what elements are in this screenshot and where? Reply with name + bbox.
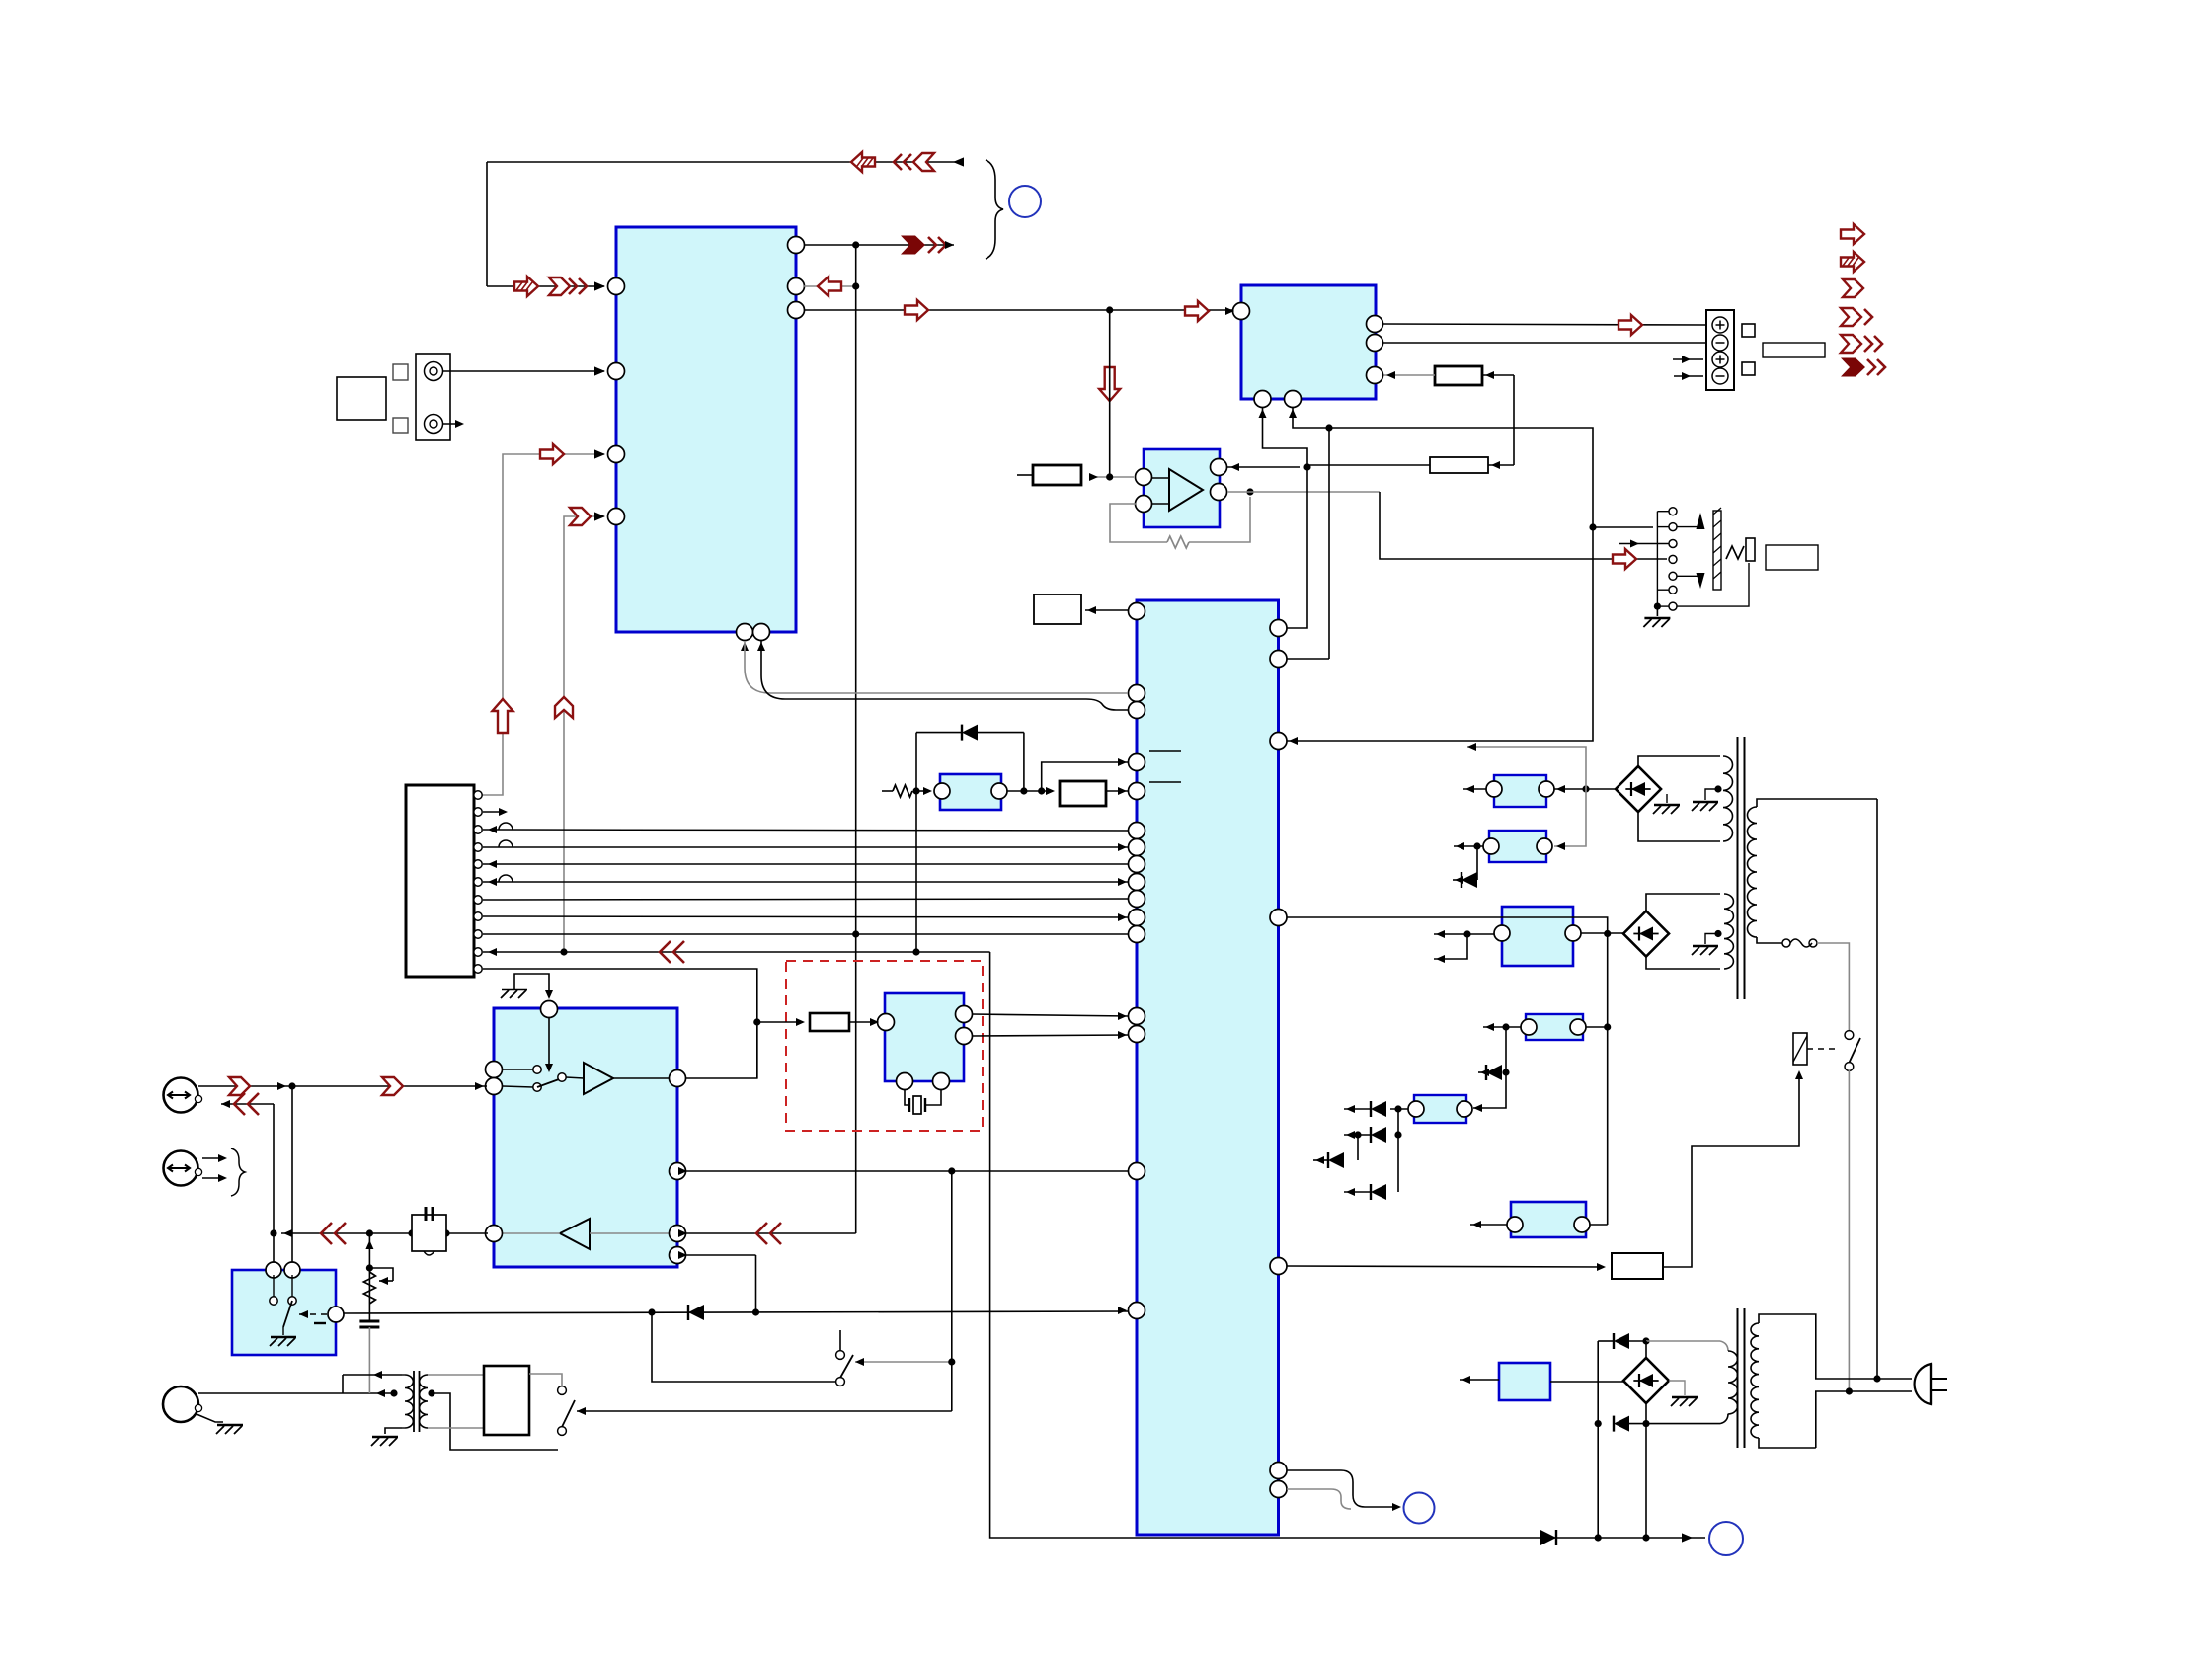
- resistor R501: [1033, 465, 1081, 485]
- filled chevron arrow with chevrons right: [901, 236, 925, 255]
- U601 mute feed 2: [1287, 408, 1593, 741]
- wire U301 to U401 row2: [972, 1035, 1129, 1036]
- block C pins: [1494, 925, 1510, 941]
- jack tip: [1746, 538, 1755, 561]
- block P to BR3: [1550, 1381, 1623, 1383]
- pot branch from mute net: [368, 1233, 370, 1322]
- wire into U201 pin 1271: [685, 1254, 756, 1256]
- resistor R401: [1034, 594, 1081, 624]
- relay K2 coil: [1793, 1033, 1807, 1065]
- U501 feedback loop: [1110, 504, 1167, 542]
- chevron arrow into U101 pin4: [570, 508, 591, 525]
- block E wires: [1586, 1026, 1608, 1028]
- block B pins: [1483, 838, 1499, 854]
- switch B: [836, 1351, 845, 1360]
- U202 switch: [270, 1297, 277, 1305]
- wire S1 down to plug: [1848, 1070, 1850, 1391]
- bus row 911 to U401: [483, 899, 1129, 900]
- outline arrow speaker: [1619, 315, 1642, 335]
- U202 internal ground: [271, 1336, 296, 1339]
- wire U301 to U401 row1: [972, 1014, 1129, 1016]
- transformer T1 winding A: [1723, 756, 1733, 841]
- BR2 to winding top: [1646, 894, 1720, 911]
- wire R601 to U601: [1383, 374, 1435, 376]
- minus label mark: [314, 1322, 326, 1324]
- ground G2: [1705, 789, 1718, 800]
- vertical rail to power indicator: [990, 952, 1705, 1538]
- BR1 to winding bottom: [1638, 812, 1720, 841]
- block A pins: [1486, 781, 1502, 797]
- vertical net x963 to U401: [951, 1171, 953, 1411]
- relay driver box: [1612, 1253, 1663, 1279]
- wire R501 to U501: [1089, 476, 1134, 478]
- ground near connector: [502, 989, 527, 991]
- outline arrow to jack: [1613, 549, 1636, 569]
- resistor R301: [810, 1013, 849, 1031]
- U301 pins: [878, 1014, 895, 1031]
- lead to T2 bottom: [1646, 1423, 1720, 1425]
- T1 winding B: [1724, 894, 1733, 969]
- arrow into U302: [923, 787, 932, 795]
- wire R301 to U301: [849, 1021, 877, 1023]
- fuse F1: [1782, 939, 1790, 947]
- branch to switch B: [652, 1312, 835, 1382]
- wire U302 out to R302: [1007, 790, 1053, 792]
- U101 pins: [608, 278, 625, 295]
- hatched arrow into U101 pin 1: [514, 277, 538, 296]
- wire U401 to R401: [1085, 609, 1129, 611]
- legend arrow 4: [1841, 308, 1861, 326]
- speaker stub arrows: [1673, 358, 1703, 360]
- jack left bracket: [1657, 511, 1669, 513]
- arrow on tap wire: [376, 1389, 385, 1397]
- legend arrow 2 hatched: [1841, 252, 1864, 272]
- bus row 964 with chevron: [483, 951, 990, 953]
- block P stub: [1460, 1379, 1499, 1381]
- monitor switch box U202: [232, 1270, 336, 1355]
- block B stub: [1454, 845, 1483, 847]
- regulator block G: [1414, 1095, 1466, 1123]
- diode D605: [1371, 1184, 1386, 1200]
- block A stub: [1463, 788, 1486, 790]
- jack stub arrow: [1619, 543, 1669, 545]
- U601 pins: [1233, 303, 1250, 320]
- bus row 928 to U401: [483, 916, 1129, 917]
- jack J2 line: [164, 1151, 198, 1186]
- ceramic filter box: [412, 1215, 446, 1251]
- resistor R601: [1435, 366, 1482, 385]
- wire U101 to U401 ch B: [761, 641, 1128, 710]
- speaker wire minus: [1383, 342, 1706, 344]
- resistor R502: [1430, 457, 1488, 473]
- transformer T3 left coil: [405, 1375, 413, 1428]
- timer indicator circle: [1404, 1493, 1435, 1524]
- bus row 946 to U401: [483, 933, 1129, 935]
- block C stubs: [1434, 933, 1494, 935]
- wire top feedback net: [487, 161, 956, 163]
- wire ground to U201 top pin: [514, 974, 549, 997]
- wire bus vertical x866: [855, 245, 857, 1233]
- T3 right leads: [428, 1374, 484, 1376]
- outline arrow on 460 wire: [540, 444, 564, 464]
- U201 pins right: [670, 1070, 686, 1087]
- wire fuse to switch S1: [1817, 943, 1849, 1030]
- speaker wire plus: [1383, 324, 1706, 325]
- diode D301 bypass: [916, 732, 962, 734]
- bus row 858 to U401: [483, 846, 1129, 848]
- outline arrow left into U101 pin: [804, 285, 856, 287]
- phono jack ring A: [425, 362, 443, 381]
- IC U201 record/play amp block: [494, 1008, 677, 1267]
- outline arrow into U601: [1185, 301, 1209, 321]
- wire U201 out to R301 net: [685, 1022, 757, 1078]
- diode D601: [1476, 846, 1478, 880]
- brace at J2: [231, 1148, 245, 1196]
- vertical line to headphone amp: [1109, 310, 1111, 477]
- block F feed: [1590, 1224, 1608, 1226]
- U202 top pins: [266, 1262, 281, 1278]
- power switch S1: [1845, 1031, 1854, 1040]
- grey lead to T2 top: [1646, 1340, 1720, 1342]
- bus row 893 to U401: [483, 881, 1129, 883]
- wire T3 upper lead: [343, 1374, 402, 1376]
- regulator block C: [1502, 907, 1573, 966]
- up chevron on grey bus x571: [555, 697, 573, 718]
- T1 primary top lead: [1757, 799, 1877, 807]
- wire into R601: [1482, 374, 1514, 376]
- diode D801 on indicator rail: [1540, 1530, 1556, 1545]
- T3 core: [413, 1371, 415, 1432]
- winding B tap ground: [1714, 930, 1721, 937]
- jack J3 phones: [163, 1386, 198, 1422]
- grey vertical from chevron pin: [564, 516, 604, 952]
- wire U101 out pin to arrow: [804, 244, 954, 246]
- U401 internal marks: [1149, 750, 1181, 752]
- K2 dashed link: [1807, 1048, 1839, 1050]
- T2 primary bottom lead: [1759, 1438, 1816, 1448]
- IC U401 system control block: [1137, 600, 1279, 1535]
- T1 primary winding: [1748, 807, 1758, 937]
- wire record mute net: [281, 1232, 488, 1234]
- bridge rectifier BR3: [1623, 1358, 1669, 1403]
- phono connector plate: [337, 377, 386, 420]
- outline arrow right on pin3 wire: [905, 300, 928, 320]
- red down arrow on amp feed line: [1099, 367, 1120, 401]
- diode D606: [1597, 1341, 1599, 1538]
- return wire to J1: [221, 1103, 274, 1105]
- switch B stub: [839, 1330, 841, 1350]
- BR3 bottom: [1645, 1403, 1647, 1424]
- arrowhead into U101 pin1: [594, 281, 605, 290]
- legend arrow 6 filled: [1841, 358, 1865, 377]
- regulator block P: [1499, 1363, 1550, 1400]
- U202 side pin: [328, 1307, 344, 1322]
- wire J1 to U201 input: [198, 1085, 487, 1087]
- block G left chain: [1390, 1108, 1408, 1110]
- grey branch down to block B: [1554, 789, 1586, 846]
- bridge rectifier BR1: [1616, 766, 1661, 812]
- jack ground: [1654, 603, 1661, 610]
- U201 internal switch: [533, 1066, 541, 1073]
- crystal X301: [905, 1090, 909, 1105]
- vertical x928: [915, 733, 917, 952]
- connector CN201 body: [406, 785, 474, 977]
- wire U202 pin to U401 pin y1329: [344, 1311, 1129, 1313]
- chevron arrows on J1 wire: [229, 1077, 250, 1095]
- T2 secondary coil: [1728, 1351, 1738, 1414]
- capacitor under pot: [359, 1320, 379, 1323]
- T3 right coil: [420, 1375, 428, 1428]
- wire switch A to U401 net: [577, 1410, 952, 1412]
- T2 core: [1737, 1308, 1739, 1448]
- resistor R302: [1060, 781, 1106, 806]
- speaker pads: [1742, 324, 1755, 337]
- BR1 to winding top: [1638, 756, 1720, 766]
- bias resistor stub: [882, 790, 893, 792]
- jack sleeve line: [1677, 563, 1749, 606]
- jack contact arrows: [1677, 526, 1700, 528]
- phono jack ring B: [425, 415, 443, 434]
- chevron arrow into U101 pin 1: [549, 277, 570, 295]
- wire block C to BR2: [1581, 932, 1623, 934]
- wire U401 to relay driver: [1287, 1266, 1604, 1267]
- wire J3 to transformer tap: [198, 1392, 394, 1394]
- diode D604: [1357, 1135, 1359, 1160]
- double chevron on mute net: [321, 1223, 332, 1244]
- branch to U401 pin772: [1042, 762, 1129, 791]
- wire U101 to U401 ch A: [745, 641, 1128, 693]
- wire U201 pin 1186 to U401: [685, 1170, 1129, 1172]
- stub arrows from J2: [202, 1157, 223, 1159]
- wire U101 pin3 to power amp: [804, 309, 1233, 311]
- phono connector square pad A: [393, 364, 408, 380]
- hatched arrow left on top net: [851, 152, 875, 172]
- diode D602 chain: [1505, 1027, 1507, 1072]
- U202 dashed link: [299, 1313, 327, 1315]
- ground G1: [1666, 794, 1668, 803]
- wire into U201 pin 1249 with chevrons: [685, 1232, 856, 1234]
- switch A: [558, 1386, 567, 1395]
- grey branch up: [1467, 747, 1586, 789]
- branch to U401 right pin667: [1328, 428, 1330, 659]
- U201 buffer amp triangle: [584, 1063, 613, 1094]
- legend arrow 3: [1843, 279, 1863, 297]
- wire into U501 inv input: [1227, 466, 1300, 468]
- power indicator lamp circle: [1709, 1522, 1743, 1555]
- rail from U401 pin929: [1287, 917, 1608, 1225]
- up arrow on grey bus x509: [493, 699, 513, 733]
- J3 ground: [197, 1414, 223, 1422]
- bus row 840 to U401: [483, 830, 1129, 831]
- T1 core: [1737, 737, 1739, 999]
- triple chevron + outline arrow left on top net: [894, 154, 902, 170]
- double chevron left on return wire: [234, 1093, 245, 1115]
- wire R502 left: [1307, 464, 1430, 466]
- pot wiper link: [369, 1268, 393, 1281]
- BR3 bottom rail link: [1645, 1424, 1647, 1538]
- stub arrow from phono B: [443, 423, 460, 425]
- jack tip spring: [1726, 546, 1744, 559]
- stub arrow row 822: [483, 811, 504, 813]
- jack switch feed: [1593, 526, 1653, 528]
- diode D607: [1614, 1416, 1629, 1432]
- regulator block E: [1526, 1014, 1583, 1040]
- U501 pins: [1136, 469, 1152, 486]
- diode D603: [1371, 1127, 1386, 1143]
- diode D201: [688, 1305, 704, 1320]
- wire K1 to switch A: [529, 1374, 562, 1386]
- IC U301 system clock: [885, 993, 964, 1081]
- legend arrow 5: [1841, 335, 1861, 353]
- U501 output net: [1227, 491, 1380, 493]
- jack body hatched bar: [1713, 511, 1721, 590]
- T2 primary coil: [1751, 1323, 1759, 1438]
- U401 pins right: [1270, 620, 1287, 637]
- IC U501 headphone amp: [1144, 449, 1220, 527]
- BR2 to winding bottom: [1646, 957, 1720, 969]
- grey line to transformer: [368, 1327, 370, 1393]
- U401 status outputs to indicator: [1287, 1470, 1365, 1507]
- U201 top pin: [541, 1001, 558, 1018]
- phono connector square pad B: [393, 418, 408, 433]
- vertical wires to monitor switch box: [291, 1086, 293, 1270]
- regulator block F: [1511, 1202, 1586, 1237]
- speaker connector: [1706, 310, 1734, 390]
- service mode dashed box: [786, 961, 983, 1131]
- U201 play head amp triangle: [560, 1219, 590, 1249]
- arrowhead into top net: [953, 157, 964, 166]
- U201 play path wires: [503, 1232, 560, 1234]
- mains vertical: [1876, 799, 1878, 1379]
- relay box K1: [484, 1366, 529, 1435]
- IC U601 power amp: [1241, 285, 1376, 399]
- IC U101 main processor block: [616, 227, 796, 632]
- bridge rectifier BR2: [1623, 911, 1669, 957]
- jack label box: [1766, 545, 1818, 570]
- U201 internal wires: [503, 1069, 533, 1070]
- U501 triangle: [1169, 469, 1203, 511]
- T3 ground: [385, 1428, 402, 1434]
- U201 pins left: [486, 1062, 503, 1078]
- U201 internal mute line: [548, 1018, 550, 1070]
- block G pins: [1408, 1101, 1424, 1117]
- brace to remote circle: [986, 160, 1003, 259]
- phono jack body: [416, 354, 450, 440]
- wire into R301: [757, 1021, 803, 1023]
- feed for R502: [1488, 464, 1514, 466]
- regulator block A: [1494, 775, 1546, 807]
- remote sensor circle: [1009, 186, 1041, 217]
- arrowheads into U101 bottom pins: [741, 642, 749, 651]
- wire block A to bridge: [1554, 788, 1616, 790]
- BR3 right to ground: [1669, 1381, 1685, 1395]
- headphone jack contacts: [1669, 508, 1677, 515]
- wire R302 to U401: [1106, 790, 1129, 792]
- T2 primary top lead: [1759, 1314, 1912, 1379]
- grey wire switch B to node: [855, 1361, 952, 1363]
- small block U302: [940, 774, 1001, 810]
- pot resistor: [363, 1272, 375, 1304]
- block F stub: [1470, 1224, 1507, 1226]
- U302 pins: [934, 783, 950, 799]
- connector pins: [474, 791, 482, 799]
- speaker label box: [1763, 343, 1825, 357]
- bus row 875 to U401: [483, 863, 1129, 865]
- legend arrow 1: [1841, 224, 1864, 244]
- bus row 981 to resonator net: [483, 969, 757, 1078]
- AC plug: [1915, 1364, 1931, 1404]
- K2 drive path: [1663, 1072, 1799, 1267]
- block F pins: [1507, 1217, 1523, 1232]
- branch up to U201 pin 1271: [755, 1255, 757, 1312]
- U401 pins left: [1129, 603, 1145, 620]
- grey net from connector pin1 to U101 pin: [482, 454, 604, 795]
- T1 primary bottom lead to fuse: [1757, 937, 1782, 943]
- wire phono A to U101: [443, 370, 604, 372]
- jack J1 mic: [164, 1078, 198, 1113]
- block E pins: [1521, 1019, 1537, 1035]
- regulator block B: [1489, 831, 1546, 862]
- U601 mute feed 1: [1263, 408, 1308, 628]
